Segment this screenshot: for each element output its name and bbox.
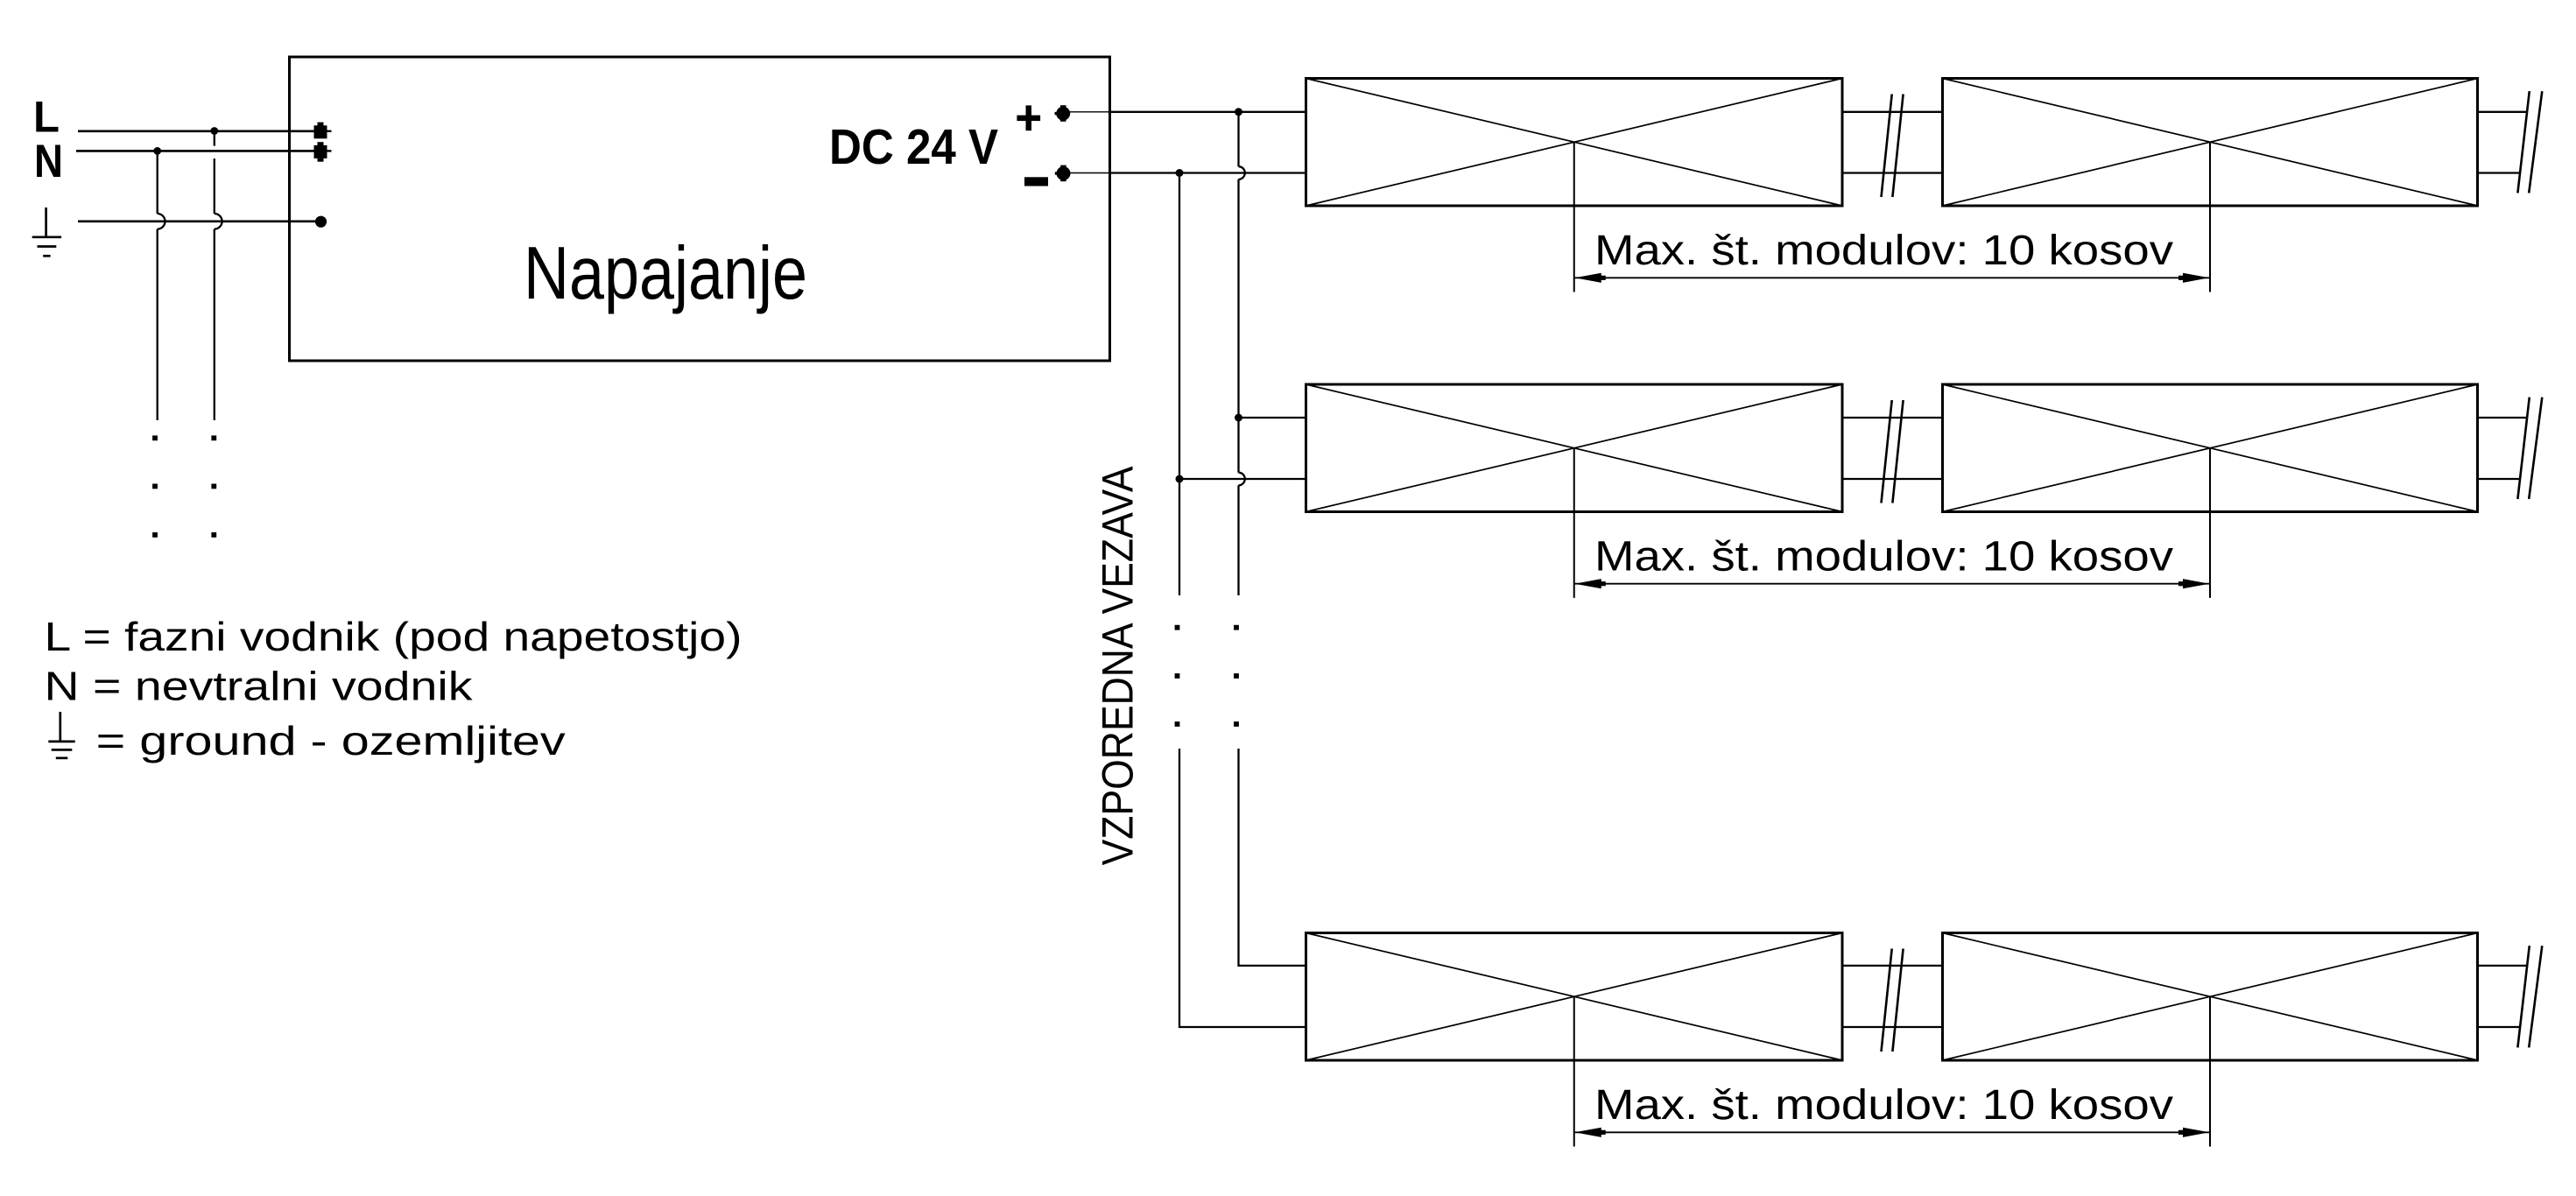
svg-text:Max. št. modulov: 10 kosov: Max. št. modulov: 10 kosov [1594,1081,2174,1129]
svg-text:= ground - ozemljitev: = ground - ozemljitev [96,718,566,763]
terminal L (screw square) [314,123,332,139]
wire + stub row1 right [2478,111,2529,113]
terminal ground (dot) [315,216,327,228]
wire break symbol row3 right [2517,946,2542,1047]
LED module row3 B [1943,933,2478,1061]
wire - link row2 (between modules) [1842,478,1943,480]
wire break symbol row1 right [2517,91,2542,193]
junction node on wire L [210,127,218,135]
legend ground symbol [48,712,74,758]
ground symbol (input) [32,208,61,256]
wire N [76,150,314,152]
wire + output to module row1 [1110,111,1306,113]
wire - feed row2 (right of hop) [1239,478,1306,480]
continuation dots buses [1175,625,1239,727]
junction node + bus row2 [1235,414,1242,422]
terminal + (dot) [1055,105,1071,122]
junction node - bus row2 [1176,475,1184,483]
center tap line row2 B [2209,448,2211,598]
LED module row2 B [1943,384,2478,512]
wire break symbol row2 mid [1882,400,1904,503]
svg-text:Napajanje: Napajanje [524,232,807,315]
dimension line row3 [1574,1128,2210,1137]
wire - stub row1 right [2478,172,2520,173]
wire - stub row2 right [2478,478,2520,480]
terminal N (screw square) [314,142,332,162]
wire break symbol row1 mid [1882,95,1904,197]
svg-text:DC 24 V: DC 24 V [829,119,998,174]
svg-text:Max. št. modulov: 10 kosov: Max. št. modulov: 10 kosov [1594,533,2174,580]
svg-text:N: N [34,136,63,187]
svg-text:L = fazni vodnik (pod napetost: L = fazni vodnik (pod napetostjo) [45,614,743,659]
wire - link row1 (between modules) [1842,172,1943,173]
wire + bus vertical (upper) [1237,112,1239,595]
minus sign (- output) [1024,177,1048,186]
wire + stub row2 right [2478,417,2529,419]
svg-text:L: L [33,93,60,142]
wire hop L-drop over ground wire [215,214,222,229]
wire - feed row2 [1179,478,1239,480]
terminal - (dot) [1055,165,1071,182]
continuation dots L/N drops [152,435,216,537]
wire + bus vertical (lower) with bend to row3 [1239,749,1306,966]
LED module row3 A [1306,933,1843,1061]
wire hop + bus over - wire [1239,166,1245,179]
svg-text:VZPOREDNA VEZAVA: VZPOREDNA VEZAVA [1093,466,1142,866]
wire - output to module row1 [1110,172,1306,173]
center tap line row1 B [2209,142,2211,292]
LED module row1 B [1943,79,2478,207]
junction node on wire N [153,147,161,155]
svg-text:N = nevtralni vodnik: N = nevtralni vodnik [45,664,474,709]
LED module row1 A [1306,79,1843,207]
junction node + bus top [1235,108,1242,116]
wire - output (inside box, thin) [1071,172,1110,174]
dimension line row2 [1574,579,2210,588]
wire + link row2 (between modules) [1842,417,1943,419]
wire hop N-drop over ground wire [158,214,165,229]
wire + link row1 (between modules) [1842,111,1943,113]
LED module row2 A [1306,384,1843,512]
wire hop + bus over row2 - wire [1239,473,1245,486]
plus sign (+ output) [1017,105,1040,130]
center tap line row3 B [2209,996,2211,1146]
wire L drop (vertical) [214,131,215,421]
wire - bus vertical (upper) [1179,173,1180,596]
center tap line row1 A [1573,142,1575,292]
wire - link row3 (between modules) [1842,1026,1943,1028]
wire N drop (vertical) [157,151,158,420]
wire break symbol row3 mid [1882,949,1904,1052]
wire - bus vertical (lower) with bend to row3 [1179,749,1306,1027]
wire + feed row2 [1239,417,1306,419]
junction node - bus top [1176,169,1184,177]
wire + output (inside box, thin) [1070,111,1110,113]
wire - stub row3 right [2478,1026,2520,1028]
dimension line row1 [1574,273,2210,283]
wire + stub row3 right [2478,965,2529,967]
wire + link row3 (between modules) [1842,965,1943,967]
svg-text:Max. št. modulov: 10 kosov: Max. št. modulov: 10 kosov [1594,227,2174,274]
center tap line row2 A [1573,448,1575,598]
wire break symbol row2 right [2517,397,2542,499]
power supply box (Napajanje) [290,57,1110,361]
wire L [78,130,314,133]
wire ground input [78,221,321,223]
center tap line row3 A [1573,996,1575,1146]
